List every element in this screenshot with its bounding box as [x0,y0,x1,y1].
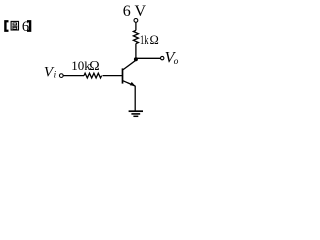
figure label [圖 6] left bracket [4,20,8,32]
wire supply to R2 [135,22,137,30]
wire R2 to collector node [135,44,137,61]
wire node to output terminal [136,57,161,59]
ground [129,111,143,116]
node collector junction dot [134,57,138,61]
svg-text:i: i [54,70,57,80]
svg-text:o: o [174,57,179,67]
figure label glyph 圖 [11,21,18,30]
svg-text:Ω: Ω [150,33,159,47]
svg-text:10k: 10k [71,58,91,73]
figure label right bracket [27,20,31,32]
svg-text:1k: 1k [140,33,149,47]
wire input to R1 [63,75,84,77]
input terminal [59,74,63,78]
output terminal [161,56,164,59]
transistor Q1 emitter lead [123,81,135,86]
supply terminal [134,19,138,23]
transistor Q1 collector lead [123,60,136,70]
transistor Q1 emitter arrow [130,82,136,86]
wire R1 to base [103,75,123,77]
svg-text:Ω: Ω [89,59,99,74]
wire emitter to ground [134,86,136,111]
resistor R2 1kΩ zigzag [133,30,138,43]
transistor Q1 base bar [122,68,124,83]
resistor R1 10kΩ zigzag [84,73,102,78]
svg-text:6 V: 6 V [123,3,147,20]
